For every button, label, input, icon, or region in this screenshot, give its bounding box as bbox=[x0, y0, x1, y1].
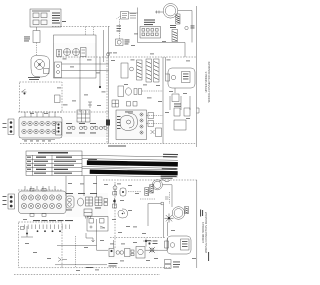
outer dashed border bottom bbox=[14, 274, 160, 276]
dashed wire bbox=[75, 236, 77, 268]
dashed wire bbox=[140, 198, 155, 200]
wire bbox=[148, 204, 161, 227]
switch SW2 bbox=[79, 126, 87, 130]
S1 label bbox=[24, 37, 30, 42]
switch S2 bbox=[22, 89, 27, 92]
electronic clock assembly bbox=[140, 27, 161, 39]
wire bbox=[103, 30, 105, 62]
wire bbox=[165, 57, 167, 74]
star junction bbox=[165, 214, 174, 223]
legend text block bbox=[52, 13, 66, 24]
wire bbox=[83, 176, 85, 196]
tick label bbox=[191, 26, 195, 29]
wire bbox=[36, 43, 38, 56]
cavity dashed box lower bbox=[19, 222, 63, 268]
scan murk washes bbox=[19, 9, 161, 259]
fuse labels bbox=[3, 196, 7, 205]
marks bbox=[21, 227, 25, 230]
relay contact 2 bbox=[148, 121, 154, 127]
wire bbox=[113, 240, 115, 248]
sensor S4 bbox=[120, 188, 126, 196]
blower motor M3 bbox=[172, 207, 185, 220]
wire bbox=[99, 57, 101, 87]
chart lines bbox=[82, 152, 178, 179]
connector pins bbox=[130, 14, 136, 19]
wire bbox=[36, 27, 38, 31]
terminal column bbox=[140, 113, 143, 134]
plug P2 bbox=[165, 236, 192, 254]
wire bbox=[147, 115, 164, 117]
wire stubs bbox=[25, 186, 55, 190]
node bbox=[24, 93, 26, 95]
plug label bbox=[183, 74, 189, 80]
table texts bbox=[27, 152, 76, 174]
marks bbox=[145, 189, 148, 194]
element E2 bbox=[137, 60, 143, 80]
border line bbox=[196, 6, 198, 147]
dashed wire bbox=[18, 189, 62, 191]
switch labels bbox=[66, 123, 96, 133]
plug P2 label bbox=[182, 241, 188, 247]
element E6 bbox=[145, 188, 149, 196]
terminal labels bbox=[24, 140, 51, 143]
element E7 bbox=[185, 207, 189, 214]
contact block bbox=[81, 48, 87, 57]
small box bbox=[55, 95, 61, 103]
wire arrow bbox=[86, 233, 95, 242]
small texts bbox=[86, 263, 118, 268]
wire bbox=[162, 57, 164, 144]
stack label bbox=[173, 262, 180, 268]
node bbox=[130, 67, 134, 71]
terminal board TB1 bbox=[19, 117, 62, 138]
wire bbox=[79, 57, 81, 112]
element E4 bbox=[154, 59, 160, 82]
lamp label bbox=[125, 40, 130, 45]
bracket mark bbox=[197, 108, 200, 113]
wire bbox=[22, 139, 55, 141]
switch SW3 bbox=[90, 126, 98, 130]
wire bbox=[96, 176, 98, 197]
wire bbox=[163, 205, 165, 238]
contact box bbox=[125, 249, 131, 257]
heating element E5 bbox=[150, 185, 154, 194]
relay board K1 bbox=[77, 110, 90, 122]
lower fan motor M2 bbox=[152, 180, 162, 190]
timer information table bbox=[26, 151, 82, 176]
wire bbox=[137, 8, 139, 43]
plug P1 bbox=[166, 68, 196, 88]
contact marks bbox=[131, 250, 134, 256]
wire bbox=[142, 90, 163, 92]
relay R3 bbox=[174, 120, 186, 130]
wire labels scatter lower bbox=[23, 183, 196, 271]
wire bbox=[163, 185, 173, 204]
wire label bbox=[117, 26, 122, 32]
wire bbox=[97, 249, 109, 251]
switch S6 bbox=[109, 249, 114, 257]
contact marks bbox=[104, 199, 108, 206]
clock label bbox=[144, 20, 155, 26]
wire bbox=[96, 219, 98, 250]
oven lamp bbox=[116, 39, 124, 46]
wire bbox=[167, 238, 169, 250]
small parts bbox=[127, 102, 138, 107]
fuse marks bbox=[151, 130, 155, 134]
switch S7 bbox=[116, 251, 124, 255]
wire bbox=[119, 19, 121, 39]
dashed wire bbox=[169, 192, 171, 204]
lower margin title bbox=[201, 212, 208, 253]
sensor probe 2 bbox=[78, 198, 84, 206]
selector switch knob 2 bbox=[73, 49, 80, 56]
wire bbox=[147, 123, 164, 125]
wire bbox=[106, 57, 108, 144]
broil element EB bbox=[121, 63, 128, 78]
relay board bbox=[55, 62, 62, 78]
switch S3 bbox=[113, 184, 117, 195]
clock box lower bbox=[87, 217, 108, 232]
wire bbox=[174, 88, 176, 93]
thermal switch bbox=[118, 86, 124, 97]
latch label bbox=[28, 77, 40, 80]
wire bbox=[55, 264, 107, 266]
terminal strip bbox=[57, 50, 62, 57]
element label bbox=[170, 25, 176, 28]
upper diagram bottom dashed border bbox=[20, 143, 196, 145]
oven cavity dashed top bbox=[57, 56, 196, 58]
wire bbox=[167, 222, 169, 236]
sensor probe bbox=[126, 88, 132, 95]
lower fuse block F2 bbox=[8, 194, 15, 209]
note text bbox=[108, 146, 126, 147]
convection fan motor M1 bbox=[163, 4, 178, 19]
wire bbox=[171, 204, 173, 207]
motor relay bbox=[136, 247, 145, 259]
wire stubs bbox=[25, 112, 55, 117]
wire bbox=[62, 63, 109, 65]
junction box bbox=[172, 94, 179, 102]
dashed wire bbox=[114, 182, 116, 248]
right wires upper bbox=[170, 96, 190, 110]
wire marks bbox=[88, 102, 92, 108]
contact marks bbox=[134, 89, 142, 95]
relay K4 bbox=[84, 209, 92, 219]
fuse labels F1 bbox=[3, 123, 7, 128]
small block bbox=[106, 120, 110, 126]
connector grid bbox=[112, 100, 119, 107]
lower diagram right border bbox=[196, 180, 198, 268]
wire bbox=[108, 27, 110, 144]
junction cluster bbox=[143, 239, 152, 247]
component stack bbox=[165, 260, 172, 269]
broil element E1b bbox=[172, 30, 178, 42]
relay K2 bbox=[86, 197, 93, 206]
terminal board TB2 bbox=[19, 188, 66, 216]
node bbox=[99, 86, 101, 88]
switch assembly box bbox=[54, 35, 97, 78]
wire bbox=[178, 11, 192, 43]
cluster label bbox=[153, 241, 158, 244]
handwritten mark bbox=[159, 180, 170, 182]
svg-text:WIRING CONNECTION DIAGRAM: WIRING CONNECTION DIAGRAM bbox=[204, 212, 208, 253]
door latch assembly bbox=[31, 56, 50, 78]
wire bbox=[138, 42, 186, 44]
part number bbox=[200, 210, 203, 217]
wire bbox=[62, 70, 109, 72]
junction node bbox=[149, 247, 155, 253]
node bbox=[26, 233, 28, 235]
part number mark bbox=[208, 252, 209, 261]
heating element E1 bbox=[176, 14, 180, 24]
thermostat TOD bbox=[121, 12, 129, 20]
broil interval bar bbox=[90, 170, 178, 176]
connector label row bbox=[33, 220, 73, 221]
fuse block F1 bbox=[8, 119, 14, 135]
wire ticks bbox=[157, 11, 160, 14]
bake interval bar bbox=[87, 160, 178, 166]
lower bake element scroll bbox=[118, 209, 128, 218]
connector strip bbox=[56, 122, 62, 135]
wire bbox=[146, 249, 168, 251]
relay K3 bbox=[95, 197, 102, 206]
element E3 bbox=[146, 59, 152, 82]
switch SW1 bbox=[67, 126, 75, 130]
wire bbox=[65, 176, 67, 196]
wire bbox=[117, 16, 121, 19]
junction label bbox=[174, 104, 181, 107]
switch SW4 bbox=[99, 126, 107, 130]
oven cavity box bbox=[116, 110, 147, 140]
bake element scroll bbox=[120, 113, 138, 131]
control panel dashed box bbox=[52, 27, 110, 36]
tick bbox=[165, 197, 169, 199]
relay contact 1 bbox=[148, 113, 154, 119]
switch SW5 bbox=[66, 196, 74, 208]
wire bbox=[129, 12, 138, 14]
console dashed box bbox=[20, 82, 63, 112]
chart legend texts bbox=[88, 152, 178, 178]
wire bbox=[128, 191, 141, 193]
selector switch knob 1 bbox=[64, 49, 71, 56]
svg-text:WIRING CONNECTION DIAGRAM: WIRING CONNECTION DIAGRAM bbox=[207, 62, 211, 103]
relay R1 bbox=[174, 108, 180, 116]
wire bbox=[21, 226, 33, 237]
wire bbox=[184, 43, 186, 58]
node bbox=[185, 26, 188, 29]
wire bbox=[155, 11, 163, 13]
arrow mark bbox=[58, 258, 67, 262]
node M bbox=[161, 202, 164, 205]
dashed wire bbox=[110, 237, 165, 239]
lower diagram bottom dashed border bbox=[62, 267, 170, 269]
connector dots bbox=[37, 230, 61, 232]
node bbox=[107, 53, 110, 56]
upper margin title bbox=[204, 62, 211, 103]
component labels bbox=[66, 193, 101, 210]
relay R2 bbox=[184, 108, 190, 116]
wire bbox=[57, 245, 97, 247]
lower diagram top dashed border bbox=[103, 179, 197, 181]
wire labels scatter upper bbox=[30, 34, 190, 119]
dashed wire bbox=[18, 111, 109, 113]
cavity labels bbox=[117, 112, 133, 129]
switch S5 bbox=[113, 198, 117, 208]
fuse box bbox=[156, 128, 162, 137]
legend box A bbox=[30, 9, 61, 27]
switch S1 bbox=[33, 31, 40, 43]
connector tick row bbox=[24, 225, 69, 230]
